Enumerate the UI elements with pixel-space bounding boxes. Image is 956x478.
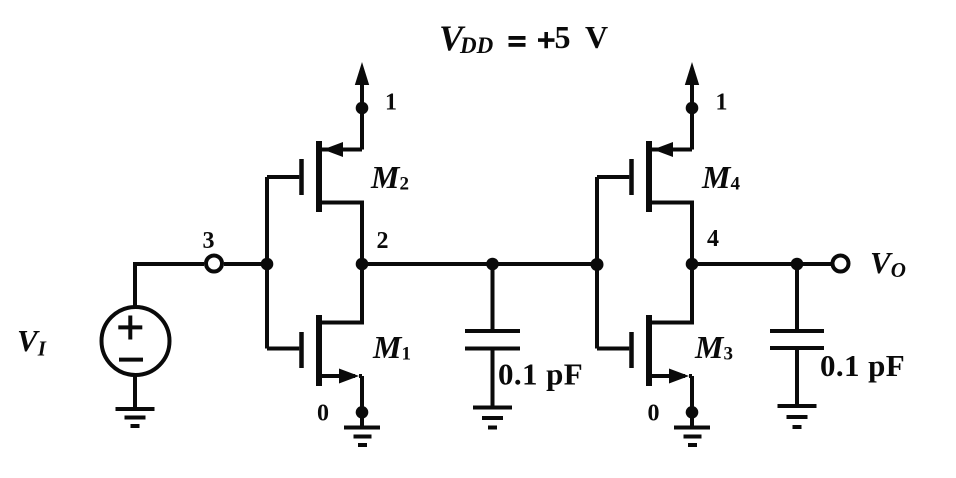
M1 source corner [359, 374, 362, 378]
M2 channel bar [316, 141, 322, 212]
M4 gate wire [597, 175, 629, 179]
svg-text:DD: DD [459, 33, 494, 58]
minus sign [119, 358, 143, 362]
node 0 dot (stage 1) [356, 406, 369, 419]
wire node3 to gate junction [224, 262, 267, 266]
M3 drain lead (top, to node 4) [652, 264, 692, 323]
M4 channel bar [646, 141, 652, 212]
svg-text:3: 3 [203, 228, 215, 254]
node 0 dot (stage 2) [686, 406, 699, 419]
gate junction dot stage 2 [591, 258, 604, 271]
svg-text:5: 5 [555, 19, 571, 55]
M2 source arrow [323, 142, 343, 157]
ground below M1 [344, 412, 380, 445]
gate line stage 2 [595, 177, 599, 349]
VDD arrow stage 2 [690, 84, 694, 150]
plus sign [118, 316, 142, 340]
M1 gate wire [267, 347, 299, 351]
M1 channel bar [316, 315, 322, 386]
svg-text:1: 1 [716, 90, 728, 116]
node 2 dot [356, 258, 369, 271]
source circle [102, 307, 170, 375]
M2 drain lead (bottom) [322, 203, 362, 265]
M4 source lead (top, to VDD) [652, 148, 692, 152]
M1 drain lead (top, to node 2) [322, 264, 362, 323]
M3 gate bar [629, 332, 634, 368]
svg-text:0: 0 [648, 401, 660, 427]
transistor M1 (NMOS) [267, 264, 411, 412]
capacitor C2 [770, 264, 824, 406]
wire source top to node 3 [135, 264, 204, 307]
wire node4 bus [692, 262, 831, 266]
M1 source lead (bottom) [322, 376, 362, 412]
svg-text:0: 0 [317, 401, 329, 427]
M3 gate wire [597, 347, 629, 351]
ground below C2 [778, 406, 817, 427]
wire node2 bus [362, 262, 597, 266]
C2 tap dot [791, 258, 804, 271]
transistor M4 (PMOS) [597, 141, 740, 264]
transistor M3 (NMOS) [597, 264, 733, 412]
output terminal circle VO [833, 256, 849, 272]
M2 gate bar [299, 159, 304, 195]
M1 gate bar [299, 332, 304, 368]
svg-text:V: V [585, 19, 608, 55]
M3 channel bar [646, 315, 652, 386]
voltage source VI [102, 264, 205, 409]
ground below M3 [674, 412, 710, 445]
M3 source lead (bottom) [652, 376, 692, 412]
M4 drain lead (bottom) [652, 203, 692, 265]
transistor M2 (PMOS) [267, 141, 409, 264]
label VDD supply [439, 18, 608, 58]
node 1 dot (stage 2) [686, 102, 699, 115]
M4 source arrow [653, 142, 673, 157]
svg-text:0.1 pF: 0.1 pF [820, 348, 905, 383]
capacitor C1 [465, 264, 520, 408]
node 3 terminal circle [206, 256, 222, 272]
VDD arrow stage 1 [360, 84, 364, 150]
gate line stage 1 [265, 177, 269, 349]
svg-text:2: 2 [377, 228, 389, 254]
M3 source arrow [669, 369, 689, 384]
M2 gate wire [267, 175, 299, 179]
svg-text:4: 4 [707, 226, 719, 252]
node 4 dot [686, 258, 699, 271]
M2 source lead (top, to VDD) [322, 148, 362, 152]
M3 source corner [689, 374, 692, 378]
node 1 dot (stage 1) [356, 102, 369, 115]
M4 gate bar [629, 159, 634, 195]
svg-text:1: 1 [385, 90, 397, 116]
C1 tap dot [486, 258, 499, 271]
gate junction dot stage 1 [261, 258, 274, 271]
ground below source [116, 409, 155, 426]
svg-text:0.1 pF: 0.1 pF [498, 357, 583, 392]
M1 source arrow [339, 369, 359, 384]
ground below C1 [473, 408, 512, 428]
wire source bottom to ground [133, 376, 137, 410]
